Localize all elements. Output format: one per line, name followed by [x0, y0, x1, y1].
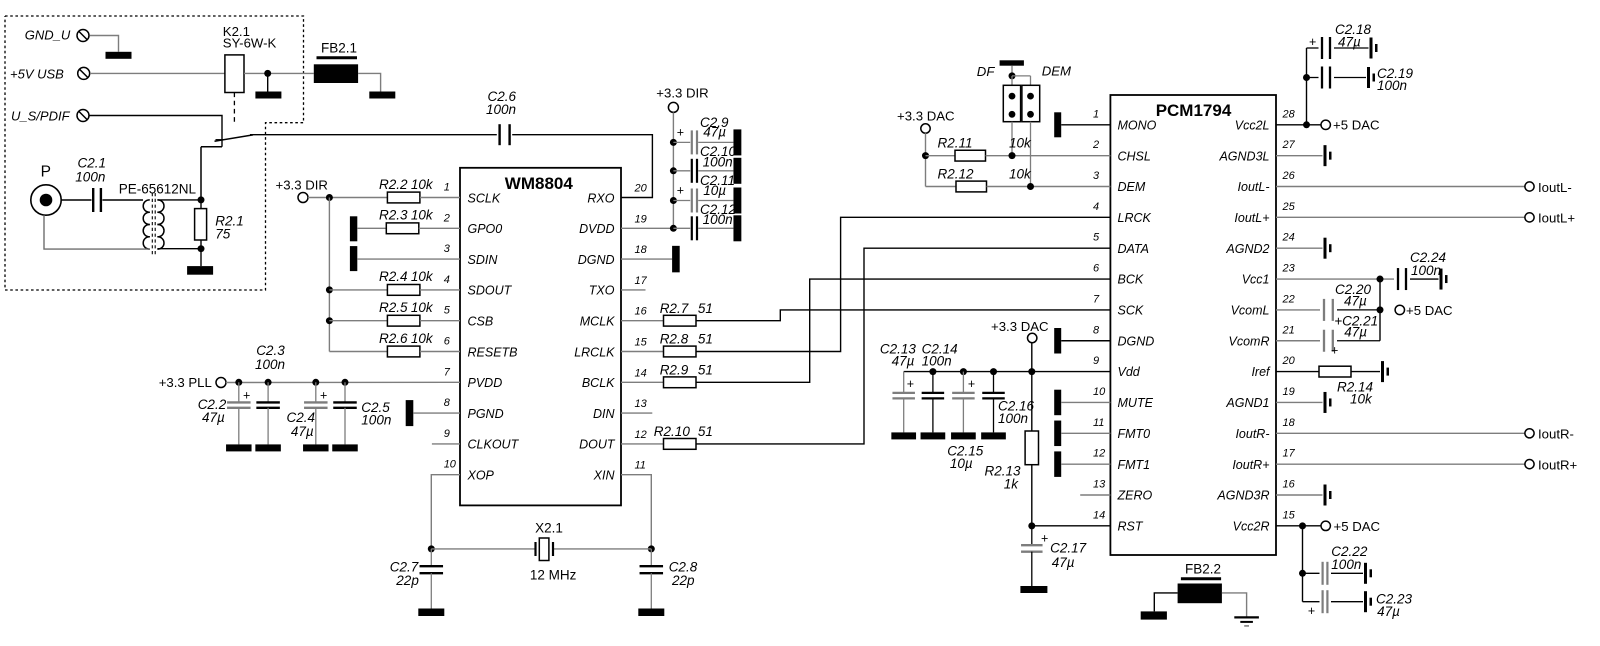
svg-text:12: 12 — [635, 429, 647, 441]
svg-text:R2.11: R2.11 — [938, 136, 973, 151]
svg-text:PGND: PGND — [468, 407, 504, 421]
svg-text:GPO0: GPO0 — [468, 222, 503, 236]
svg-text:Iref: Iref — [1251, 365, 1271, 379]
svg-text:R2.8: R2.8 — [660, 332, 689, 347]
svg-text:26: 26 — [1282, 170, 1296, 182]
svg-text:+: + — [968, 377, 975, 391]
svg-text:MCLK: MCLK — [580, 315, 615, 329]
svg-text:10k: 10k — [411, 269, 434, 284]
svg-text:27: 27 — [1282, 139, 1296, 151]
svg-text:+: + — [1309, 35, 1316, 49]
svg-text:+5 DAC: +5 DAC — [1333, 118, 1380, 133]
svg-text:SY-6W-K: SY-6W-K — [223, 35, 277, 50]
svg-text:100n: 100n — [922, 353, 952, 368]
svg-text:Vdd: Vdd — [1118, 365, 1141, 379]
svg-text:P: P — [41, 164, 51, 181]
svg-text:5: 5 — [1093, 232, 1100, 244]
svg-text:6: 6 — [444, 336, 451, 348]
svg-text:100n: 100n — [998, 411, 1028, 426]
svg-text:12: 12 — [1093, 448, 1105, 460]
svg-text:RST: RST — [1118, 519, 1144, 533]
svg-text:DOUT: DOUT — [579, 438, 616, 452]
svg-text:R2.12: R2.12 — [938, 167, 975, 182]
svg-text:15: 15 — [1283, 509, 1296, 521]
svg-text:MONO: MONO — [1118, 118, 1157, 132]
svg-text:IoutL+: IoutL+ — [1538, 211, 1575, 226]
svg-text:51: 51 — [698, 363, 713, 378]
svg-text:51: 51 — [698, 424, 713, 439]
svg-text:100n: 100n — [486, 102, 516, 117]
svg-text:BCLK: BCLK — [582, 376, 615, 390]
svg-text:10µ: 10µ — [950, 456, 973, 471]
svg-text:100n: 100n — [1377, 78, 1407, 93]
svg-text:IoutR-: IoutR- — [1538, 427, 1574, 442]
svg-text:C2.3: C2.3 — [256, 343, 285, 358]
svg-text:10: 10 — [1093, 386, 1106, 398]
svg-text:IoutR+: IoutR+ — [1232, 458, 1269, 472]
svg-text:+: + — [1041, 532, 1048, 546]
svg-text:12 MHz: 12 MHz — [530, 568, 577, 583]
svg-text:DEM: DEM — [1118, 180, 1146, 194]
svg-text:47µ: 47µ — [1344, 325, 1367, 340]
svg-text:IoutR+: IoutR+ — [1538, 457, 1578, 472]
svg-text:100n: 100n — [1411, 263, 1441, 278]
svg-text:XIN: XIN — [593, 469, 616, 483]
svg-text:PVDD: PVDD — [468, 376, 503, 390]
svg-text:2: 2 — [1092, 139, 1099, 151]
svg-text:AGND1: AGND1 — [1225, 396, 1269, 410]
svg-text:20: 20 — [1282, 355, 1296, 367]
svg-text:VcomR: VcomR — [1229, 334, 1270, 348]
svg-text:47µ: 47µ — [1344, 294, 1367, 309]
svg-text:13: 13 — [1093, 479, 1106, 491]
svg-text:CLKOUT: CLKOUT — [468, 438, 520, 452]
svg-text:22p: 22p — [395, 573, 419, 588]
svg-text:4: 4 — [1093, 201, 1099, 213]
svg-text:19: 19 — [635, 213, 647, 225]
svg-text:AGND2: AGND2 — [1225, 242, 1269, 256]
svg-text:16: 16 — [635, 306, 648, 318]
svg-text:R2.9: R2.9 — [660, 363, 689, 378]
svg-text:1: 1 — [444, 182, 450, 194]
svg-text:+3.3 DIR: +3.3 DIR — [276, 178, 328, 193]
svg-text:DATA: DATA — [1118, 242, 1149, 256]
svg-text:9: 9 — [1093, 355, 1099, 367]
svg-text:C2.1: C2.1 — [78, 156, 107, 171]
svg-text:Vcc2L: Vcc2L — [1235, 118, 1270, 132]
svg-text:TXO: TXO — [589, 284, 615, 298]
svg-text:14: 14 — [635, 367, 647, 379]
svg-text:+5 DAC: +5 DAC — [1334, 519, 1381, 534]
svg-text:5: 5 — [444, 305, 451, 317]
svg-text:+3.3 DAC: +3.3 DAC — [991, 319, 1049, 334]
svg-text:47µ: 47µ — [1338, 34, 1361, 49]
svg-text:1: 1 — [1093, 108, 1099, 120]
svg-text:17: 17 — [1283, 448, 1296, 460]
svg-text:11: 11 — [1093, 417, 1104, 429]
svg-text:8: 8 — [1093, 324, 1100, 336]
svg-text:21: 21 — [1282, 324, 1295, 336]
svg-text:28: 28 — [1282, 108, 1296, 120]
svg-text:DIN: DIN — [593, 407, 616, 421]
svg-text:CSB: CSB — [468, 315, 494, 329]
svg-text:47µ: 47µ — [1052, 555, 1075, 570]
svg-text:47µ: 47µ — [291, 424, 314, 439]
svg-text:22: 22 — [1282, 293, 1295, 305]
svg-text:SDIN: SDIN — [468, 253, 499, 267]
svg-text:20: 20 — [634, 183, 648, 195]
svg-text:10k: 10k — [1350, 392, 1373, 407]
svg-text:100n: 100n — [703, 155, 733, 170]
svg-text:FB2.2: FB2.2 — [1185, 562, 1221, 577]
svg-text:LRCLK: LRCLK — [574, 345, 615, 359]
svg-text:100n: 100n — [703, 212, 733, 227]
svg-text:IoutL-: IoutL- — [1238, 180, 1270, 194]
svg-text:4: 4 — [444, 274, 450, 286]
svg-text:C2.17: C2.17 — [1050, 541, 1087, 556]
svg-text:LRCK: LRCK — [1118, 211, 1152, 225]
svg-text:100n: 100n — [255, 357, 285, 372]
svg-text:AGND3R: AGND3R — [1216, 489, 1269, 503]
svg-text:R2.7: R2.7 — [660, 301, 689, 316]
svg-text:+: + — [1331, 344, 1338, 358]
svg-text:25: 25 — [1282, 201, 1296, 213]
svg-text:51: 51 — [698, 332, 713, 347]
svg-text:47µ: 47µ — [202, 410, 225, 425]
svg-text:10: 10 — [444, 459, 457, 471]
svg-text:6: 6 — [1093, 263, 1100, 275]
svg-text:22p: 22p — [671, 573, 695, 588]
svg-text:R2.6: R2.6 — [379, 331, 408, 346]
svg-text:Vcc2R: Vcc2R — [1233, 519, 1270, 533]
svg-text:DGND: DGND — [1118, 334, 1155, 348]
svg-text:FMT0: FMT0 — [1118, 427, 1151, 441]
svg-text:CHSL: CHSL — [1118, 149, 1151, 163]
svg-text:19: 19 — [1283, 386, 1295, 398]
svg-text:+5V USB: +5V USB — [10, 66, 64, 81]
svg-text:24: 24 — [1282, 232, 1295, 244]
svg-text:R2.10: R2.10 — [654, 424, 691, 439]
svg-text:MUTE: MUTE — [1118, 396, 1154, 410]
svg-text:+: + — [320, 388, 327, 402]
svg-text:7: 7 — [1093, 293, 1100, 305]
svg-text:+3.3 DIR: +3.3 DIR — [656, 85, 708, 100]
svg-text:SCLK: SCLK — [468, 191, 501, 205]
svg-text:10k: 10k — [411, 331, 434, 346]
svg-text:IoutL+: IoutL+ — [1234, 211, 1269, 225]
svg-text:DF: DF — [977, 64, 996, 79]
svg-text:17: 17 — [635, 275, 648, 287]
svg-text:+3.3 DAC: +3.3 DAC — [897, 109, 955, 124]
svg-text:100n: 100n — [361, 413, 391, 428]
svg-text:R2.2: R2.2 — [379, 177, 408, 192]
svg-text:+3.3 PLL: +3.3 PLL — [159, 375, 212, 390]
svg-text:18: 18 — [635, 244, 648, 256]
svg-text:IoutL-: IoutL- — [1538, 180, 1572, 195]
svg-text:11: 11 — [635, 460, 646, 472]
svg-text:23: 23 — [1282, 263, 1296, 275]
svg-text:+: + — [677, 183, 684, 197]
svg-text:+: + — [907, 377, 914, 391]
svg-text:18: 18 — [1283, 417, 1296, 429]
svg-text:100n: 100n — [75, 170, 105, 185]
svg-text:9: 9 — [444, 428, 450, 440]
svg-text:100n: 100n — [1331, 557, 1361, 572]
svg-text:DVDD: DVDD — [579, 222, 614, 236]
svg-text:X2.1: X2.1 — [535, 521, 563, 536]
svg-text:R2.5: R2.5 — [379, 300, 408, 315]
svg-text:10k: 10k — [1009, 136, 1032, 151]
svg-text:FB2.1: FB2.1 — [321, 40, 357, 55]
svg-text:GND_U: GND_U — [25, 28, 71, 43]
svg-text:VcomL: VcomL — [1231, 304, 1270, 318]
svg-text:+5 DAC: +5 DAC — [1406, 303, 1453, 318]
svg-text:FMT1: FMT1 — [1118, 458, 1151, 472]
svg-text:10k: 10k — [1009, 167, 1032, 182]
svg-text:AGND3L: AGND3L — [1218, 149, 1269, 163]
svg-text:Vcc1: Vcc1 — [1242, 273, 1270, 287]
svg-text:7: 7 — [444, 366, 451, 378]
svg-text:16: 16 — [1283, 479, 1296, 491]
svg-text:+: + — [243, 388, 250, 402]
svg-text:+: + — [677, 125, 684, 139]
svg-text:XOP: XOP — [467, 469, 495, 483]
svg-text:3: 3 — [444, 243, 451, 255]
svg-text:3: 3 — [1093, 170, 1100, 182]
svg-text:8: 8 — [444, 397, 451, 409]
svg-text:10µ: 10µ — [703, 183, 726, 198]
svg-text:PE-65612NL: PE-65612NL — [119, 182, 197, 197]
svg-text:ZERO: ZERO — [1117, 489, 1153, 503]
svg-text:10k: 10k — [411, 208, 434, 223]
svg-text:U_S/PDIF: U_S/PDIF — [11, 108, 71, 123]
svg-text:15: 15 — [635, 337, 648, 349]
svg-text:2: 2 — [443, 212, 450, 224]
svg-text:DEM: DEM — [1042, 63, 1071, 78]
svg-text:47µ: 47µ — [703, 124, 726, 139]
svg-text:SDOUT: SDOUT — [468, 284, 513, 298]
svg-text:10k: 10k — [411, 300, 434, 315]
svg-text:RESETB: RESETB — [468, 345, 518, 359]
svg-text:51: 51 — [698, 301, 713, 316]
svg-text:R2.3: R2.3 — [379, 208, 408, 223]
svg-text:C2.4: C2.4 — [287, 410, 316, 425]
svg-text:10k: 10k — [411, 177, 434, 192]
svg-text:IoutR-: IoutR- — [1235, 427, 1269, 441]
svg-text:47µ: 47µ — [1377, 604, 1400, 619]
svg-text:13: 13 — [635, 398, 648, 410]
svg-text:PCM1794: PCM1794 — [1156, 101, 1232, 120]
svg-text:WM8804: WM8804 — [505, 174, 574, 193]
svg-text:1k: 1k — [1004, 477, 1020, 492]
svg-text:BCK: BCK — [1118, 273, 1144, 287]
svg-text:SCK: SCK — [1118, 304, 1144, 318]
svg-text:R2.4: R2.4 — [379, 269, 408, 284]
svg-text:DGND: DGND — [578, 253, 615, 267]
svg-text:RXO: RXO — [587, 191, 614, 205]
svg-text:14: 14 — [1093, 509, 1105, 521]
svg-text:47µ: 47µ — [892, 353, 915, 368]
svg-text:+: + — [1308, 604, 1315, 618]
svg-text:75: 75 — [215, 227, 231, 242]
